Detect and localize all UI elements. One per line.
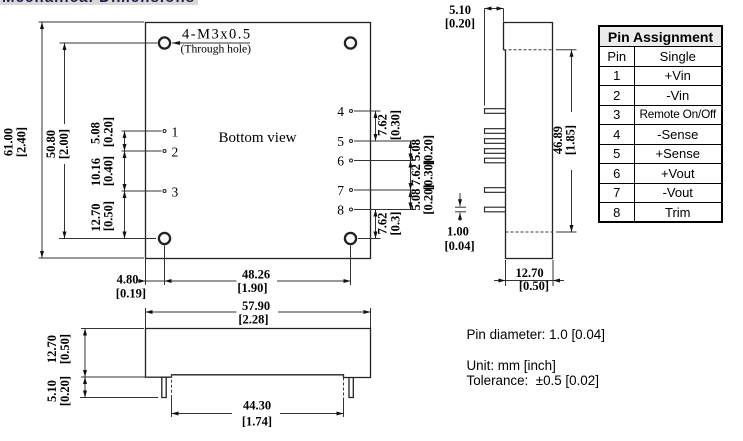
svg-text:12.70: 12.70 [515,266,543,280]
svg-text:57.90: 57.90 [242,299,270,313]
extension line hole-right down [350,246,352,286]
dimension line 7.62 pin8-hole [375,210,377,239]
extension line bottom-right hole [358,238,381,240]
arrowhead 44.30 right [337,412,344,416]
svg-text:[0.19]: [0.19] [116,287,146,301]
tick 1.00 bottom [455,211,466,213]
svg-text:61.00: 61.00 [2,128,16,156]
extension line hole-left down [164,246,166,286]
svg-text:4.80: 4.80 [117,273,139,287]
svg-text:[1.85]: [1.85] [564,125,578,155]
svg-text:1.00: 1.00 [447,225,469,239]
svg-text:50.80: 50.80 [44,130,58,158]
arrowheads 12.70 bottom (outside) [499,279,506,283]
svg-text:[2.28]: [2.28] [238,313,268,327]
arrowhead 1.00 down [458,199,462,206]
dimension line 4.80 / 48.26 [138,280,237,282]
dimension line 12.70 bottom [494,280,564,282]
arrowhead 48.26 right [344,279,351,283]
extension lines pins 1-3 [122,130,162,132]
extension line 44.30 left [171,398,173,418]
dimension line pins 1-3 chain [124,131,126,239]
pin 6 [350,159,353,162]
pin right (side) [349,378,353,398]
svg-text:[0.20]: [0.20] [445,17,475,31]
dimension line 50.80 [64,43,66,124]
extension line 46.89 bottom [556,231,577,233]
dimension line 5.10 left [84,377,86,398]
arrowheads vertical dims left [40,22,44,29]
svg-text:[0.30]: [0.30] [389,110,403,140]
arrowheads pins 4-8 dims [374,111,378,118]
svg-text:[0.3]: [0.3] [389,212,403,236]
title bar (cropped heading) [0,0,198,5]
extension line box left edge down [145,258,147,285]
pin 2 [163,150,166,153]
extension line box bottom [39,257,145,259]
dimension line 12.70 left [84,329,86,378]
pin 3 [163,190,166,193]
svg-text:[1.74]: [1.74] [242,415,272,429]
pin stub rows 3+7 [485,188,506,193]
mounting hole bottom-right [345,233,356,244]
extension lines left of side view [81,328,144,330]
svg-text:(Through hole): (Through hole) [181,43,252,56]
svg-text:Bottom view: Bottom view [219,130,297,146]
dimension line 46.89 [571,50,573,112]
svg-text:6: 6 [337,154,344,169]
leader line to top-left hole [60,42,158,44]
svg-text:[0.20]: [0.20] [102,117,116,147]
dimension line 44.30 [172,413,233,415]
pin 4 [350,110,353,113]
dimension line 57.90 [146,311,237,313]
pin stub row 2 [485,149,506,154]
svg-text:2: 2 [172,145,179,160]
hidden edge dashed top [504,49,554,51]
svg-text:[1.90]: [1.90] [237,281,267,295]
svg-text:3: 3 [172,185,179,200]
svg-text:44.30: 44.30 [243,399,271,413]
arrowhead 4.80 left [139,279,146,283]
dimension line 5.10 top [485,8,504,10]
svg-text:[0.50]: [0.50] [519,279,549,293]
svg-text:5.10: 5.10 [449,3,471,17]
dimension line 7.62 pin4-5 [375,111,377,141]
side view body (right) [504,23,553,259]
pin 8 [350,208,353,211]
pin 7 [350,189,353,192]
tick 1.00 top [455,206,466,208]
pin stub row 6 [485,158,506,163]
leader 1.00 below [459,213,461,221]
hidden edge dashed bottom [506,231,554,233]
svg-text:7: 7 [337,183,344,198]
pin 1 [163,130,166,133]
dimension line 61.00 [41,22,43,258]
svg-text:[0.20]: [0.20] [58,376,72,406]
dimension chain pins 5-8 [410,141,412,210]
arrowheads 46.89 [570,50,574,57]
pin stub row 5 [485,139,506,144]
extension line box top [39,21,145,23]
side view body [146,329,371,378]
mounting hole bottom-left [159,233,170,244]
svg-text:[0.20]: [0.20] [422,184,436,214]
svg-text:[2.40]: [2.40] [15,127,29,157]
arrowhead 44.30 left [172,412,179,416]
svg-text:1: 1 [172,125,179,140]
extension line body edge top [503,9,505,22]
notes [467,327,605,342]
pin 5 [350,140,353,143]
svg-text:[0.50]: [0.50] [102,201,116,231]
pin stub row 4 [485,109,506,114]
extension line side-view top-left up [145,308,147,329]
svg-text:[0.40]: [0.40] [102,156,116,186]
arrowhead 1.00 up [458,213,462,220]
extension line pin tip [484,9,486,106]
bottom view body [146,23,371,259]
svg-text:[0.04]: [0.04] [445,239,475,253]
arrowhead hole leader [172,41,180,45]
extension line bottom-left hole [59,238,156,240]
svg-text:5.08: 5.08 [89,122,103,144]
mounting hole top-right [345,37,356,48]
svg-text:4-M3x0.5: 4-M3x0.5 [182,27,252,43]
extension line side-view top-right up [370,308,372,329]
pin left (side) [162,377,166,397]
pin stub row 1 [485,129,506,134]
svg-text:[2.00]: [2.00] [57,129,71,159]
pin assignment table [598,25,723,223]
extension lines 12.70 bottom [505,260,507,286]
svg-text:[0.50]: [0.50] [58,334,72,364]
leader 1.00 above [459,193,461,206]
arrowhead 57.90 left [146,310,153,314]
svg-text:12.70: 12.70 [45,335,59,363]
arrowheads 12.70 left [83,329,87,336]
arrowheads 5.10 top [485,7,492,11]
extension lines pins 4-8 [354,110,381,112]
svg-text:48.26: 48.26 [242,268,270,282]
svg-text:8: 8 [337,203,344,218]
pin stub row 8 [485,207,506,212]
hidden edge dashed right [343,378,345,398]
svg-text:5.10: 5.10 [45,380,59,402]
extension line 46.89 top [556,49,577,51]
mounting hole top-left [159,37,170,48]
hidden edge dashed left [171,375,173,398]
svg-text:4: 4 [337,104,344,119]
extension line 44.30 right [343,398,345,418]
arrowhead 4.80/48.26 shared [165,279,172,283]
svg-text:5: 5 [337,134,344,149]
top edge jog [504,49,506,51]
arrowhead 57.90 right [364,310,371,314]
arrowheads 5.10 left [83,377,87,384]
